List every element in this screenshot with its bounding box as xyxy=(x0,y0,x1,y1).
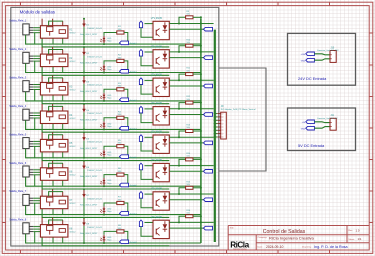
svg-text:LTV 4N35: LTV 4N35 xyxy=(151,216,163,219)
global label opto in 7 xyxy=(139,192,142,199)
resistor R4 330 xyxy=(104,116,128,126)
svg-text:R7: R7 xyxy=(118,197,122,199)
svg-text:Rev:: Rev: xyxy=(348,230,353,232)
svg-text:1N4007_DO-41: 1N4007_DO-41 xyxy=(87,170,102,172)
wire 24V xyxy=(314,54,330,55)
svg-text:Salida_Rele_7: Salida_Rele_7 xyxy=(9,189,26,193)
svg-text:Rele_G5V-2_DPDT: Rele_G5V-2_DPDT xyxy=(80,91,98,93)
svg-text:1N4007_DO-41: 1N4007_DO-41 xyxy=(87,56,102,58)
global label +5V xyxy=(306,120,315,124)
svg-text:Salida1: Salida1 xyxy=(130,43,138,45)
svg-text:GND: GND xyxy=(301,60,306,62)
svg-text:G5V-2: G5V-2 xyxy=(70,231,77,233)
wire opto collector rail xyxy=(169,51,213,53)
wire opto out xyxy=(169,199,203,201)
wire bus A top join xyxy=(200,159,202,165)
wire connector to relay xyxy=(33,227,40,243)
global label output 6 xyxy=(120,183,129,187)
relay K5 xyxy=(40,132,68,152)
svg-text:LTV 4N35: LTV 4N35 xyxy=(151,131,163,134)
wire bus A top join xyxy=(200,188,202,194)
wire diode drop xyxy=(83,198,85,215)
svg-text:R4: R4 xyxy=(118,111,122,113)
LED DL3 xyxy=(100,93,105,100)
resistor R8 330 xyxy=(104,230,128,240)
wire opto collector rail xyxy=(169,221,213,223)
wire opto out xyxy=(169,28,203,30)
global label opto in 1 xyxy=(139,21,142,28)
junction pullup 3 xyxy=(178,79,202,81)
LED DL6 xyxy=(100,178,105,185)
svg-text:K7: K7 xyxy=(70,200,74,202)
wire connector to relay xyxy=(33,198,40,214)
resistor R2 330 xyxy=(104,59,128,69)
global label signal 8 xyxy=(204,226,213,230)
svg-text:Rojo: Rojo xyxy=(107,240,112,242)
wire relay drops xyxy=(52,180,54,186)
svg-text:K8: K8 xyxy=(70,228,74,230)
svg-text:G5V-2: G5V-2 xyxy=(70,33,77,35)
LED DL1 xyxy=(100,36,105,43)
junction pullup 6 xyxy=(178,165,202,167)
svg-text:Rojo: Rojo xyxy=(107,126,112,128)
wire pullup bridge xyxy=(179,159,186,165)
wire LED drop xyxy=(103,71,105,74)
wire connector to relay xyxy=(33,28,40,44)
svg-text:R5: R5 xyxy=(118,140,122,142)
wire lower rail A xyxy=(26,205,201,214)
svg-text:Rojo: Rojo xyxy=(107,41,112,43)
global label opto in 4 xyxy=(139,106,142,113)
svg-text:Salida7: Salida7 xyxy=(130,214,138,216)
svg-text:K1: K1 xyxy=(70,30,74,32)
relay K7 xyxy=(40,189,68,209)
svg-text:LTV 4N35: LTV 4N35 xyxy=(151,187,163,190)
svg-text:K6: K6 xyxy=(70,172,74,174)
wire 5V xyxy=(314,121,330,124)
svg-text:Date:: Date: xyxy=(258,245,263,248)
diode D6 flyback xyxy=(83,160,86,169)
svg-text:D3: D3 xyxy=(86,82,90,84)
junction dots xyxy=(83,158,202,187)
wire connector to relay xyxy=(33,113,40,129)
svg-text:Salida_Rele_2: Salida_Rele_2 xyxy=(9,47,26,51)
LED DL5 xyxy=(100,150,105,157)
wire opto collector rail xyxy=(169,136,213,138)
wire relay top bridge xyxy=(49,78,63,83)
wire LED drop xyxy=(103,156,105,159)
wire bus A top join xyxy=(200,46,202,52)
relay K8 xyxy=(40,218,68,238)
junction pullup 5 xyxy=(178,136,202,138)
wire diode drop xyxy=(83,84,85,101)
wire relay drops xyxy=(52,152,54,158)
svg-text:1/1: 1/1 xyxy=(358,237,362,241)
wire lower rail B xyxy=(42,209,169,218)
svg-text:Salida_Rele_1: Salida_Rele_1 xyxy=(9,19,26,23)
wire opto input xyxy=(141,56,153,66)
diode D3 flyback xyxy=(83,75,86,84)
svg-text:R1: R1 xyxy=(118,26,122,28)
wire opto out xyxy=(169,227,203,229)
wire relay drops xyxy=(52,95,54,101)
connector J1 xyxy=(23,24,33,35)
global label GND5 xyxy=(306,126,315,130)
wire LED drop xyxy=(103,99,105,102)
wire opto collector rail xyxy=(169,108,213,110)
optocoupler U1 LTV4N35 xyxy=(153,21,169,39)
global label opto in 3 xyxy=(139,78,142,85)
junction LED 7 xyxy=(103,214,105,216)
resistor R1 330 xyxy=(104,31,128,41)
svg-text:Rele_G5V-2_DPDT: Rele_G5V-2_DPDT xyxy=(80,205,98,207)
wire stubs to J9 xyxy=(214,114,218,137)
junction LED 8 xyxy=(103,242,105,244)
resistor R16 10k xyxy=(186,215,193,218)
global label signal 7 xyxy=(204,198,213,202)
svg-text:5V DC Entrada: 5V DC Entrada xyxy=(298,143,325,148)
svg-text:Salida_Rele_6: Salida_Rele_6 xyxy=(9,161,26,165)
junction pullup 7 xyxy=(178,193,202,195)
global label +24V xyxy=(306,52,315,56)
junction LED 6 xyxy=(103,185,105,187)
wire diode drop xyxy=(83,169,85,186)
wire LED drop xyxy=(103,42,105,45)
svg-text:D5: D5 xyxy=(86,138,90,140)
wire LED drop xyxy=(103,128,105,131)
svg-text:Rele_G5V-2_DPDT: Rele_G5V-2_DPDT xyxy=(80,34,98,36)
svg-text:Conector_Jack-DC_5V: Conector_Jack-DC_5V xyxy=(317,117,338,120)
wire pullup to bus xyxy=(193,102,201,104)
svg-text:D6: D6 xyxy=(86,167,90,169)
svg-text:Salida_Rele_3: Salida_Rele_3 xyxy=(9,76,26,80)
wire lower rail B xyxy=(42,38,169,47)
svg-text:D4: D4 xyxy=(86,110,90,112)
diode D2 flyback xyxy=(83,46,86,55)
svg-text:IDC-Header_2x08_P2.54mm_Vertic: IDC-Header_2x08_P2.54mm_Vertical xyxy=(221,108,256,111)
wire pullup bridge xyxy=(179,131,186,137)
wire relay drops xyxy=(52,209,54,215)
global label output 3 xyxy=(120,98,129,102)
5V input box xyxy=(288,108,356,151)
resistor R7 330 xyxy=(104,201,128,211)
wire lower rail B xyxy=(42,237,169,246)
svg-text:Rele_G5V-2_DPDT: Rele_G5V-2_DPDT xyxy=(80,176,98,178)
wire GND24 xyxy=(314,59,330,60)
wire opto out xyxy=(169,170,203,172)
svg-text:Rele_G5V-2_DPDT: Rele_G5V-2_DPDT xyxy=(80,233,98,235)
svg-text:Rele_G5V-2_DPDT: Rele_G5V-2_DPDT xyxy=(80,63,98,65)
svg-text:D7: D7 xyxy=(86,195,90,197)
junction dots xyxy=(83,130,202,159)
connector J10 xyxy=(330,51,336,63)
wire pullup bridge xyxy=(179,216,186,222)
connector J5 xyxy=(23,138,33,149)
svg-text:D2: D2 xyxy=(86,53,90,55)
wire relay top bridge xyxy=(49,21,63,26)
svg-text:G5V-2: G5V-2 xyxy=(70,118,77,120)
junction LED 4 xyxy=(103,128,105,130)
svg-text:Salida2: Salida2 xyxy=(130,72,138,74)
global label opto in 2 xyxy=(139,50,142,57)
svg-text:G5V-2: G5V-2 xyxy=(70,89,77,91)
wire bus A top join xyxy=(200,103,202,109)
resistor R11 10k xyxy=(186,73,193,76)
global label output 7 xyxy=(120,212,129,216)
LED DL4 xyxy=(100,121,105,128)
resistor R3 330 xyxy=(104,88,128,98)
wire opto collector rail xyxy=(169,165,213,167)
resistor R13 10k xyxy=(186,130,193,133)
svg-text:Control de Salidas: Control de Salidas xyxy=(263,229,306,235)
connector J8 xyxy=(23,223,33,234)
diode D7 flyback xyxy=(83,188,86,197)
global label signal 3 xyxy=(204,84,213,88)
wire opto out xyxy=(169,114,203,116)
resistor R9 10k xyxy=(186,16,193,19)
wire lower rail A xyxy=(26,92,201,101)
wire bus A top join xyxy=(200,216,202,222)
wire diode drop xyxy=(83,112,85,129)
svg-text:Drawn by:: Drawn by: xyxy=(302,245,312,248)
wire opto collector rail xyxy=(169,23,213,25)
global label output 2 xyxy=(120,70,129,74)
svg-text:Salida5: Salida5 xyxy=(130,157,138,159)
svg-text:G5V-2: G5V-2 xyxy=(70,146,77,148)
svg-text:Rojo: Rojo xyxy=(107,98,112,100)
junction LED 2 xyxy=(103,72,105,74)
svg-text:R3: R3 xyxy=(118,83,122,85)
svg-text:R6: R6 xyxy=(118,168,122,170)
svg-text:G5V-2: G5V-2 xyxy=(70,175,77,177)
wire opto input xyxy=(141,113,153,123)
LED DL7 xyxy=(100,206,105,213)
global label signal 2 xyxy=(204,56,213,60)
optocoupler U4 LTV4N35 xyxy=(153,107,169,125)
svg-text:K3: K3 xyxy=(70,86,74,88)
svg-text:Rojo: Rojo xyxy=(107,154,112,156)
wire opto out xyxy=(169,142,203,144)
global label signal 6 xyxy=(204,170,213,174)
global label output 1 xyxy=(120,41,129,45)
wire bus vertical B xyxy=(214,30,216,242)
global label signal 5 xyxy=(204,141,213,145)
svg-text:24V DC Entrada: 24V DC Entrada xyxy=(298,76,327,81)
wire relay top bridge xyxy=(49,163,63,168)
module outline box xyxy=(11,7,219,246)
24V input box xyxy=(288,33,356,85)
wire pullup bridge xyxy=(179,46,186,52)
svg-text:Title:: Title: xyxy=(230,226,235,229)
diode D5 flyback xyxy=(83,131,86,140)
wire opto input xyxy=(141,170,153,180)
svg-text:J10: J10 xyxy=(330,47,334,49)
wire pullup to bus xyxy=(193,16,201,18)
wire LED drop xyxy=(103,184,105,187)
wire diode drop xyxy=(83,56,85,73)
junction dots xyxy=(83,187,202,216)
svg-text:G5V-2: G5V-2 xyxy=(70,203,77,205)
relay K4 xyxy=(40,104,68,124)
wire GND5 xyxy=(314,127,330,129)
wire connector to relay xyxy=(33,56,40,72)
svg-text:J9: J9 xyxy=(221,104,224,108)
title block frame xyxy=(228,226,369,251)
svg-text:1N4007_DO-41: 1N4007_DO-41 xyxy=(87,28,102,30)
svg-text:1N4007_DO-41: 1N4007_DO-41 xyxy=(87,142,102,144)
wire bus A top join xyxy=(200,17,202,23)
wire lower rail A xyxy=(26,234,201,243)
connector J6 xyxy=(23,166,33,177)
svg-text:10k: 10k xyxy=(186,14,190,16)
wire lower rail A xyxy=(26,149,201,158)
svg-text:Rele_G5V-2_DPDT: Rele_G5V-2_DPDT xyxy=(80,119,98,121)
wire diode drop xyxy=(83,27,85,44)
wire pullup to bus xyxy=(193,45,201,47)
svg-text:1N4007_DO-41: 1N4007_DO-41 xyxy=(87,198,102,200)
svg-text:Salida6: Salida6 xyxy=(130,185,138,187)
diode D4 flyback xyxy=(83,103,86,112)
wire lower rail A xyxy=(26,35,201,44)
wire connector to relay xyxy=(33,170,40,186)
svg-text:Rojo: Rojo xyxy=(107,211,112,213)
connector J7 xyxy=(23,194,33,205)
wire pullup to bus xyxy=(193,130,201,132)
wire diode drop xyxy=(83,141,85,158)
svg-text:LTV 4N35: LTV 4N35 xyxy=(151,159,163,162)
svg-text:RiCla: RiCla xyxy=(230,240,249,249)
LED DL8 xyxy=(100,235,105,242)
junction LED 5 xyxy=(103,157,105,159)
wire diode drop xyxy=(83,226,85,243)
wire bus vertical A xyxy=(200,19,202,243)
optocoupler U7 LTV4N35 xyxy=(153,192,169,210)
wire pullup to bus xyxy=(193,158,201,160)
wire relay drops xyxy=(52,67,54,73)
svg-text:Salida_Rele_5: Salida_Rele_5 xyxy=(9,132,26,136)
wire pullup to bus xyxy=(193,73,201,75)
wire opto input xyxy=(141,198,153,208)
optocoupler U8 LTV4N35 xyxy=(153,220,169,238)
global label output 8 xyxy=(120,240,129,244)
wire lower rail B xyxy=(42,152,169,161)
svg-text:2024-09-10: 2024-09-10 xyxy=(266,245,283,249)
junction LED 1 xyxy=(103,43,105,45)
wire pullup to bus xyxy=(193,187,201,189)
junction dots xyxy=(83,215,202,244)
global label output 5 xyxy=(120,155,129,159)
global label signal 4 xyxy=(204,113,213,117)
wire connector to relay xyxy=(33,85,40,101)
diode D1 flyback xyxy=(83,18,86,27)
wire relay top bridge xyxy=(49,50,63,55)
global label opto in 6 xyxy=(139,163,142,170)
optocoupler U6 LTV4N35 xyxy=(153,163,169,181)
connector J4 xyxy=(23,109,33,120)
svg-text:GND: GND xyxy=(301,128,306,130)
svg-text:D1: D1 xyxy=(86,25,90,27)
connector J2 xyxy=(23,52,33,63)
junction pullup 4 xyxy=(178,108,202,110)
wire lower rail B xyxy=(42,180,169,189)
svg-text:J11: J11 xyxy=(330,115,334,117)
svg-text:+5V: +5V xyxy=(302,122,306,124)
svg-text:Salida3: Salida3 xyxy=(130,100,138,102)
svg-text:K2: K2 xyxy=(70,58,74,60)
wire pullup to bus xyxy=(193,215,201,217)
junction dots xyxy=(83,102,202,131)
svg-text:Conector_Jack-DC_24V: Conector_Jack-DC_24V xyxy=(317,49,339,52)
svg-text:Módulo de salidas: Módulo de salidas xyxy=(20,10,56,15)
wire opto input xyxy=(141,141,153,151)
wire relay drops xyxy=(52,38,54,44)
junction pullup 2 xyxy=(178,51,202,53)
junction pullup 1 xyxy=(178,23,202,25)
global label signal 1 xyxy=(204,27,213,31)
junction dots xyxy=(83,16,202,45)
svg-text:1N4007_DO-41: 1N4007_DO-41 xyxy=(87,113,102,115)
junction dots xyxy=(83,73,202,102)
wire relay top bridge xyxy=(49,220,63,225)
svg-text:Sheet:: Sheet: xyxy=(348,238,355,241)
diode D8 flyback xyxy=(83,217,86,226)
wire pullup bridge xyxy=(179,74,186,80)
wire bus A top join xyxy=(200,74,202,80)
svg-text:Salida4: Salida4 xyxy=(130,128,138,130)
wire relay drops xyxy=(52,237,54,243)
wire pullup bridge xyxy=(179,188,186,194)
svg-text:+24V: +24V xyxy=(300,54,305,56)
svg-text:D8: D8 xyxy=(86,224,90,226)
relay K3 xyxy=(40,76,68,96)
optocoupler U3 LTV4N35 xyxy=(153,78,169,96)
wire lower rail A xyxy=(26,63,201,72)
svg-text:Salida8: Salida8 xyxy=(130,242,138,244)
wire opto collector rail xyxy=(169,193,213,195)
resistor R5 330 xyxy=(104,145,128,155)
connector area box xyxy=(219,68,266,171)
wire pullup bridge xyxy=(179,103,186,109)
wire opto input xyxy=(141,227,153,237)
wire lower rail A xyxy=(26,177,201,186)
svg-text:Company:: Company: xyxy=(258,237,268,239)
resistor R6 330 xyxy=(104,173,128,183)
resistor R12 10k xyxy=(186,101,193,104)
svg-text:Salida_Rele_4: Salida_Rele_4 xyxy=(9,104,26,108)
wire lower rail B xyxy=(42,95,169,104)
wire opto out xyxy=(169,57,203,59)
LED DL2 xyxy=(100,64,105,71)
junction pullup 8 xyxy=(178,221,202,223)
wire relay top bridge xyxy=(49,135,63,140)
relay K1 xyxy=(40,19,68,39)
connector J11 xyxy=(330,118,336,130)
optocoupler U5 LTV4N35 xyxy=(153,135,169,153)
wire opto out xyxy=(169,85,203,87)
svg-text:Ing. P. D. de la Rosa: Ing. P. D. de la Rosa xyxy=(314,245,348,249)
global label opto in 5 xyxy=(139,135,142,142)
wire lower rail B xyxy=(42,124,169,133)
wire lower rail B xyxy=(42,67,169,76)
svg-text:LTV 4N35: LTV 4N35 xyxy=(151,102,163,105)
resistor R10 10k xyxy=(186,44,193,47)
junction LED 3 xyxy=(103,100,105,102)
svg-text:Salida_Rele_8: Salida_Rele_8 xyxy=(9,218,26,222)
svg-text:Rojo: Rojo xyxy=(107,69,112,71)
svg-text:1N4007_DO-41: 1N4007_DO-41 xyxy=(87,85,102,87)
resistor R15 10k xyxy=(186,186,193,189)
svg-text:G5V-2: G5V-2 xyxy=(70,61,77,63)
